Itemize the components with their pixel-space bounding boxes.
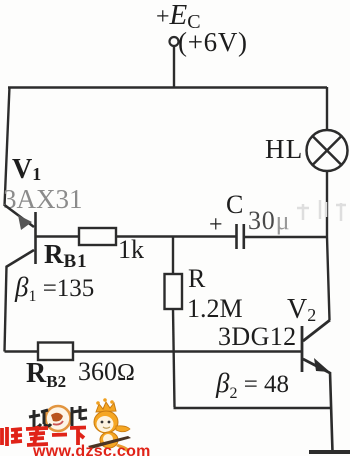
- wire left rail upper: [5, 87, 10, 207]
- wire bottom link: [174, 407, 332, 409]
- wire top rail: [8, 86, 327, 88]
- svg-text:R: R: [188, 264, 206, 293]
- svg-text:HL: HL: [265, 134, 303, 164]
- svg-text:30μ: 30μ: [248, 206, 290, 235]
- svg-text:www.dzsc.com: www.dzsc.com: [32, 443, 151, 456]
- wire R top: [172, 236, 174, 275]
- watermark mascot: [88, 398, 131, 452]
- watermark logo circle: [46, 406, 71, 431]
- watermark text weiku red: [2, 426, 86, 446]
- arrow V1 emitter: [18, 215, 32, 230]
- wire right rail upper: [326, 87, 328, 130]
- resistor R: [165, 274, 183, 309]
- lamp HL: [307, 130, 348, 171]
- wire R bottom: [173, 309, 175, 407]
- svg-text:+: +: [209, 212, 223, 238]
- wire right rail lower: [327, 171, 330, 320]
- wire base rail RB2 to V2: [5, 350, 302, 352]
- watermark char zhao: [29, 410, 51, 428]
- transistor V2: [302, 320, 330, 373]
- power terminal circle: [170, 37, 179, 46]
- svg-text:1k: 1k: [118, 235, 144, 264]
- watermark char pian: [72, 406, 87, 426]
- wire power lead: [173, 46, 175, 88]
- wire V1 base to capacitor: [36, 235, 236, 237]
- wire bottom bar: [309, 450, 350, 454]
- svg-text:β2 = 48: β2 = 48: [215, 368, 289, 402]
- svg-text:3AX31: 3AX31: [3, 184, 83, 214]
- resistor RB1: [79, 228, 116, 245]
- svg-text:1.2M: 1.2M: [187, 294, 243, 323]
- capacitor C plates: [237, 224, 244, 249]
- wire left rail lower: [5, 266, 7, 352]
- svg-text:β1 =135: β1 =135: [14, 272, 94, 305]
- wire capacitor to right rail: [244, 236, 327, 238]
- svg-text:3DG12: 3DG12: [218, 322, 297, 351]
- resistor RB2: [38, 343, 73, 361]
- wire V2 emitter down: [330, 372, 333, 452]
- svg-text:C: C: [226, 190, 243, 219]
- svg-text:(+6V): (+6V): [178, 27, 248, 57]
- transistor V1: [5, 205, 36, 267]
- arrow V2 emitter: [314, 358, 330, 372]
- faint watermark remnant: [297, 200, 346, 221]
- svg-text:360Ω: 360Ω: [78, 357, 135, 386]
